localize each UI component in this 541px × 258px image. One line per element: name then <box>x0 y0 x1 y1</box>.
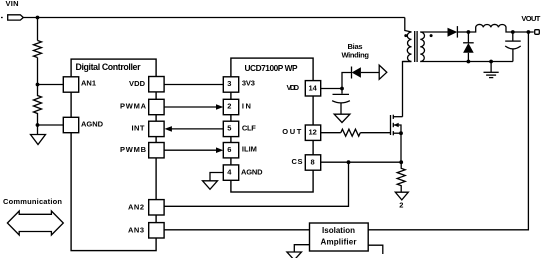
wire secondary top <box>420 31 447 33</box>
wire PWMA to pin2 <box>164 106 216 108</box>
wire AN2 run <box>164 162 348 206</box>
svg-text:ILIM: ILIM <box>242 145 257 154</box>
pin 3 3V3 <box>223 77 238 92</box>
svg-text:VDD: VDD <box>129 79 146 88</box>
capacitor C2 output <box>505 32 521 62</box>
pin 2 IN <box>223 99 238 114</box>
svg-text:PWMA: PWMA <box>120 102 147 111</box>
svg-text:2: 2 <box>399 200 403 209</box>
pin 14 VDD <box>305 81 320 96</box>
svg-text:AGND: AGND <box>241 167 263 176</box>
pin 8 CS <box>305 155 320 170</box>
wire pin8 CS <box>321 161 402 163</box>
inductor L1 <box>468 24 512 32</box>
wire divider top <box>37 18 39 41</box>
svg-text:VDD: VDD <box>287 83 300 92</box>
svg-text:3: 3 <box>227 79 231 88</box>
node CS-AN2 <box>347 160 351 164</box>
wire pin12 to gate resistor <box>321 132 341 134</box>
node VIN junction <box>36 16 40 20</box>
svg-text:AGND: AGND <box>81 120 104 129</box>
node AN1 tap <box>36 83 40 87</box>
svg-text:6: 6 <box>227 145 231 154</box>
svg-text:OUT: OUT <box>282 127 301 136</box>
svg-text:3V3: 3V3 <box>242 79 255 88</box>
Digital Controller block U2 <box>71 59 156 251</box>
wire node to diode <box>342 73 352 89</box>
node VDD bypass <box>340 87 344 91</box>
node ground tap <box>489 60 493 64</box>
wire to VOUT <box>513 31 534 33</box>
transformer T1 <box>403 18 433 63</box>
resistor R2 <box>34 85 42 126</box>
svg-text:CLF: CLF <box>242 123 256 132</box>
wire iso ground stub <box>294 245 309 252</box>
wire iso bottom-right stub <box>368 245 383 254</box>
svg-text:CS: CS <box>292 157 303 166</box>
ground 2 (sense) <box>395 192 408 200</box>
resistor R4 sense <box>397 162 405 192</box>
resistor R1 <box>34 41 42 58</box>
svg-text:AN2: AN2 <box>128 202 144 211</box>
svg-text:Winding: Winding <box>342 50 370 59</box>
ground (isolation amp) <box>287 252 302 258</box>
resistor R3 gate <box>341 129 361 136</box>
pin AN1 <box>63 77 78 92</box>
wire diode to arrow <box>361 72 379 74</box>
svg-text:INT: INT <box>132 123 145 132</box>
node feedback tap <box>527 30 531 34</box>
wire AN3 to isolation amp <box>164 229 309 231</box>
node source/body <box>399 131 403 135</box>
svg-text:IN: IN <box>242 101 251 110</box>
wire feedback down <box>368 32 528 230</box>
wire R1 to tap <box>37 58 39 85</box>
capacitor C1 VDD bypass <box>332 89 350 115</box>
svg-text:14: 14 <box>309 83 318 92</box>
diode D1 rectifier <box>448 26 458 37</box>
svg-text:Communication: Communication <box>3 197 62 206</box>
pin VDD <box>149 77 164 92</box>
ground (output, earth) <box>484 62 499 78</box>
wire pin4 to ground <box>210 173 223 181</box>
svg-text:8: 8 <box>311 157 315 166</box>
pin INT <box>149 121 164 136</box>
svg-text:5: 5 <box>227 124 231 133</box>
diode D3 bias <box>352 67 361 79</box>
pin 12 OUT <box>305 125 320 140</box>
wire diode to node <box>457 31 468 33</box>
wire resistor to gate <box>360 132 390 134</box>
svg-text:12: 12 <box>309 128 317 137</box>
pin AN3 <box>149 223 164 238</box>
VOUT terminal <box>535 30 540 35</box>
svg-text:Isolation: Isolation <box>322 226 355 235</box>
wire tap to AGND pin <box>38 124 64 126</box>
wire VDD to pin3 <box>164 84 223 86</box>
wire secondary bottom rail <box>420 61 513 63</box>
wire pin5 to INT <box>172 128 224 130</box>
wire tap to AN1 <box>38 84 64 86</box>
svg-text:AN3: AN3 <box>128 225 144 234</box>
pin PWMA <box>149 99 164 114</box>
communication double arrow <box>7 211 63 235</box>
node cap top <box>511 30 515 34</box>
pin 5 CLF <box>223 121 238 136</box>
wire source down <box>400 133 402 162</box>
wire pin14 to node <box>321 88 342 90</box>
pin 6 ILIM <box>223 143 238 158</box>
svg-text:Digital Controller: Digital Controller <box>76 62 142 72</box>
svg-text:Amplifier: Amplifier <box>321 238 357 247</box>
input connector J1 <box>1 15 23 20</box>
node switch <box>467 30 471 34</box>
off-page arrow to bias winding <box>379 65 387 79</box>
svg-text:UCD7100P WP: UCD7100P WP <box>245 63 298 73</box>
ground (analog, divider) <box>31 135 46 145</box>
wire PWMB to pin6 <box>164 149 216 151</box>
ground (C1) <box>334 114 350 122</box>
UCD7100 block U1 <box>231 58 313 192</box>
ground (pin 4 AGND) <box>203 181 218 190</box>
svg-text:2: 2 <box>227 102 231 111</box>
pin 4 AGND <box>223 165 238 180</box>
diode D2 freewheel <box>463 32 474 62</box>
wire drain to transformer <box>403 62 412 117</box>
node AGND tap <box>36 123 40 127</box>
transistor Q1 MOSFET <box>391 115 403 136</box>
wire VIN rail <box>23 17 405 19</box>
node freewheel bottom <box>467 60 471 64</box>
pin AGND <box>63 117 78 132</box>
wire tap to ground <box>37 125 39 135</box>
pin AN2 <box>149 200 164 215</box>
svg-text:VOUT: VOUT <box>521 14 540 23</box>
svg-text:PWMB: PWMB <box>120 145 147 154</box>
pin PWMB <box>149 143 164 158</box>
node CS-sense <box>399 160 403 164</box>
Isolation Amplifier block U3 <box>310 223 369 251</box>
svg-text:AN1: AN1 <box>81 79 96 88</box>
svg-text:VIN: VIN <box>6 0 19 8</box>
